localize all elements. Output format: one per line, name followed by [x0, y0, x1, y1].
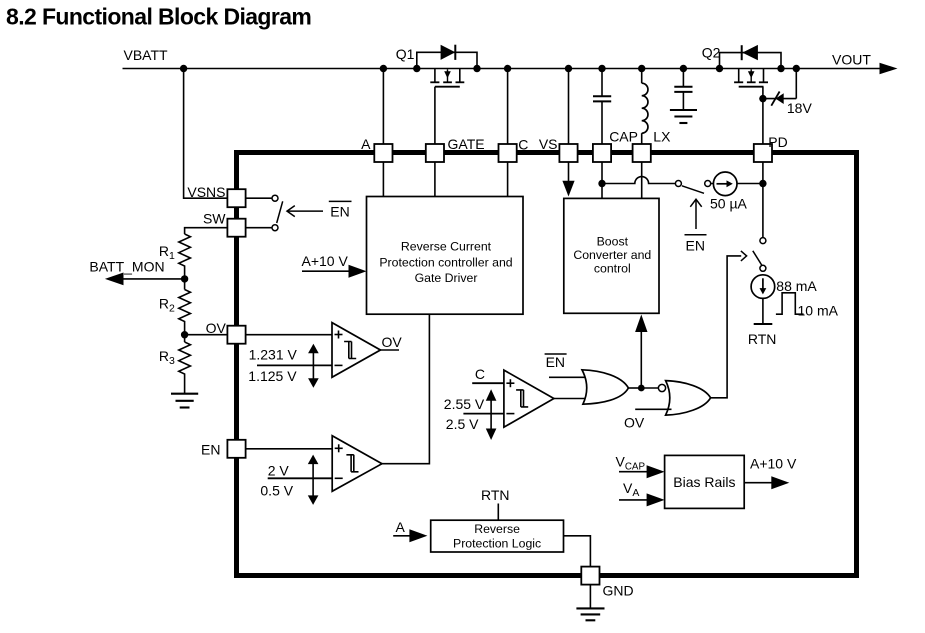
inverter bubble on NOR input — [658, 384, 665, 391]
wire zener branch — [763, 98, 796, 100]
svg-text:18V: 18V — [787, 100, 813, 116]
svg-text:VBATT: VBATT — [124, 47, 169, 63]
ground under GND pin — [576, 585, 604, 621]
wire U5 minus input threshold line — [463, 413, 504, 415]
wire R2 to R3 — [184, 335, 186, 342]
arrow VOUT output — [880, 63, 898, 75]
wire OR output — [628, 387, 641, 389]
comparator U3 OV — [332, 323, 380, 378]
wire U5 plus input — [472, 382, 504, 384]
diode Q1 body diode — [441, 45, 456, 60]
svg-text:Protection controller and: Protection controller and — [379, 256, 512, 270]
wire EN pin to U4 plus input — [246, 448, 333, 450]
arrow A+10V into U1 — [302, 270, 353, 272]
wire U3 minus input threshold line — [257, 364, 332, 366]
svg-text:C: C — [518, 137, 528, 153]
wire RTN stub to logic box — [497, 504, 499, 521]
svg-text:Gate Driver: Gate Driver — [415, 271, 478, 285]
svg-text:OV: OV — [206, 320, 227, 336]
wire VS pin drop — [568, 69, 570, 145]
svg-text:CAP: CAP — [609, 129, 638, 145]
arrow VA into U8 — [619, 499, 651, 501]
svg-text:GATE: GATE — [448, 136, 485, 152]
wire C pin to RCP box — [507, 162, 509, 197]
wire OV pin to U3 plus input — [246, 334, 332, 336]
gate U7 NOR — [666, 381, 711, 416]
svg-text:A: A — [396, 519, 406, 535]
pin SW — [203, 211, 246, 237]
wire PD pin internal drop — [762, 162, 764, 238]
svg-text:A+10 V: A+10 V — [302, 253, 349, 269]
box U9 Reverse Protection Logic — [431, 520, 564, 552]
wire U9 to GND pin — [564, 536, 591, 567]
svg-text:0.5 V: 0.5 V — [260, 483, 293, 499]
wire R1 to R2 — [184, 279, 186, 290]
wire A pin to RCP box — [382, 162, 384, 197]
svg-text:RTN: RTN — [481, 487, 510, 503]
svg-text:2.55 V: 2.55 V — [444, 396, 485, 412]
svg-text:Q2: Q2 — [702, 45, 721, 61]
box U2 Boost Converter and control — [564, 198, 659, 313]
wire PD pin drop — [762, 99, 764, 144]
pin C — [499, 137, 529, 163]
wire CAP junction into boost box — [601, 184, 603, 199]
inductor L1 on LX line — [642, 69, 648, 145]
svg-text:PD: PD — [768, 134, 787, 150]
node Q2 right junction — [777, 65, 784, 72]
wire VSNS drop from VBATT rail — [184, 69, 228, 199]
svg-text:control: control — [594, 262, 631, 276]
arrow EN to switch S1 — [287, 206, 323, 217]
svg-text:C: C — [475, 366, 485, 382]
svg-text:Converter and: Converter and — [573, 248, 651, 262]
comparator U5 current limit — [504, 370, 554, 427]
wire CAP pin to junction — [601, 162, 603, 184]
pulse waveform glyph — [776, 293, 804, 314]
node VS pin junction — [565, 65, 572, 72]
wire U3 output stub — [380, 349, 399, 351]
transistor Q2 MOSFET symbol — [734, 69, 768, 87]
svg-text:BATT_MON: BATT_MON — [89, 259, 164, 275]
arrow VCAP into U8 — [619, 471, 651, 473]
svg-text:SW: SW — [203, 211, 226, 227]
node OR output junction — [638, 385, 645, 392]
arrow EN to switch S2 — [690, 199, 701, 229]
svg-text:Bias Rails: Bias Rails — [673, 474, 735, 490]
node C pin junction — [504, 65, 511, 72]
svg-text:10 mA: 10 mA — [798, 303, 839, 319]
pin EN — [201, 440, 246, 458]
node LX branch junction — [638, 65, 645, 72]
svg-text:Reverse Current: Reverse Current — [401, 240, 492, 254]
wire U4 output to U1 — [382, 314, 429, 464]
node PD/zener junction — [759, 95, 766, 102]
hysteresis arrows U3 — [308, 344, 319, 388]
node A pin junction — [380, 65, 387, 72]
node OV junction — [181, 331, 188, 338]
node output cap junction — [680, 65, 687, 72]
wire U5 output to OR gate — [554, 398, 585, 400]
box U8 Bias Rails — [665, 455, 745, 508]
wire junction to NOR bubble — [641, 387, 658, 389]
svg-text:EN: EN — [546, 354, 565, 370]
svg-text:OV: OV — [382, 334, 403, 350]
resistor R1 — [179, 234, 191, 279]
svg-text:EN: EN — [330, 204, 349, 220]
pin VSNS — [187, 184, 245, 207]
pin A — [361, 136, 392, 162]
current source I1 50uA — [711, 172, 737, 196]
IC boundary box — [237, 153, 857, 576]
svg-text:VSNS: VSNS — [187, 184, 225, 200]
node zener top junction — [793, 65, 800, 72]
wire GATE pin to RCP box — [434, 162, 436, 197]
arrow open head at S3 — [741, 251, 747, 261]
resistor R2 — [179, 290, 191, 335]
pin CAP — [593, 129, 638, 163]
arrow A+10V out of U8 — [744, 482, 773, 484]
node Q2 left junction — [716, 65, 723, 72]
pin OV — [206, 320, 246, 344]
arrow BATT_MON output — [118, 278, 185, 280]
svg-text:A+10 V: A+10 V — [750, 456, 797, 472]
switch S1 on VSNS/SW — [246, 195, 283, 231]
wire C pin drop — [507, 69, 509, 145]
wire 50uA rail with hop over LX — [602, 177, 675, 184]
svg-text:RTN: RTN — [748, 331, 777, 347]
wire Q1 body-diode loop — [417, 52, 477, 68]
svg-text:A: A — [361, 136, 371, 152]
svg-text:OV: OV — [624, 415, 645, 431]
wire junction up into boost with arrow — [640, 320, 642, 388]
node Q1 right junction — [473, 65, 480, 72]
svg-text:1.125 V: 1.125 V — [248, 368, 297, 384]
capacitor C1 on CAP pin line — [593, 69, 611, 145]
box U1 Reverse Current Protection controller and Gate Driver — [367, 197, 524, 315]
node CAP internal junction — [598, 180, 605, 187]
wire A pin drop — [382, 69, 384, 145]
node VBATT/VSNS junction — [180, 65, 187, 72]
zener diode D3 18V — [771, 92, 783, 106]
wire VS pin into boost with arrow — [568, 162, 570, 182]
wire OV junction to OV pin — [185, 334, 228, 336]
node Q1 left junction — [413, 65, 420, 72]
svg-text:EN: EN — [201, 442, 220, 458]
gate U6 OR — [582, 370, 628, 404]
svg-text:Boost: Boost — [597, 235, 629, 249]
comparator U4 EN — [332, 436, 382, 492]
svg-text:LX: LX — [653, 129, 671, 145]
wire U4 minus input threshold line — [268, 477, 333, 479]
diode Q2 body diode — [742, 45, 758, 60]
wire OV to NOR lower input — [635, 408, 671, 410]
arrow A into U9 — [393, 535, 414, 537]
pin LX — [633, 129, 671, 163]
svg-text:88 mA: 88 mA — [776, 278, 817, 294]
wire NOR output to switch S3 control — [711, 256, 742, 398]
wire Q2 gate to PD node — [762, 87, 764, 99]
wire I2 to RTN — [762, 298, 764, 324]
svg-text:2.5 V: 2.5 V — [446, 416, 479, 432]
wire SW pin to divider — [185, 228, 228, 234]
wire Q2 body-diode loop — [720, 53, 782, 69]
pin GND — [581, 567, 633, 599]
switch S3 contact circles and blade — [753, 238, 766, 272]
svg-text:EN: EN — [686, 238, 705, 254]
ground under C2 — [670, 110, 697, 123]
svg-text:VOUT: VOUT — [832, 52, 871, 68]
node CAP branch junction — [598, 65, 605, 72]
svg-text:8.2 Functional Block Diagram: 8.2 Functional Block Diagram — [6, 4, 311, 30]
svg-text:GND: GND — [603, 583, 634, 599]
capacitor C2 output cap — [674, 69, 692, 111]
svg-text:Protection Logic: Protection Logic — [453, 537, 541, 551]
ground under R3 — [171, 394, 198, 408]
node BATT_MON junction — [181, 275, 188, 282]
switch S2 contact circles and blade — [675, 181, 710, 194]
transistor Q1 MOSFET symbol — [430, 69, 464, 87]
svg-text:2 V: 2 V — [268, 463, 290, 479]
hysteresis arrows U5 — [486, 389, 497, 440]
wire I1 to PD line — [737, 183, 763, 185]
current source I2 88mA — [751, 275, 775, 299]
resistor R3 — [179, 342, 191, 394]
wire EN bar to OR gate — [549, 376, 585, 378]
pin GATE — [426, 136, 485, 162]
hysteresis arrows U4 — [308, 455, 319, 505]
wire LX pin into boost box — [641, 162, 643, 198]
svg-text:50 µA: 50 µA — [710, 196, 748, 212]
svg-text:Reverse: Reverse — [474, 522, 520, 536]
RTN rail bar — [754, 323, 773, 325]
node PD/50uA junction — [759, 180, 766, 187]
svg-text:VS: VS — [539, 136, 558, 152]
pin PD — [754, 134, 788, 162]
wire VBATT top rail — [123, 68, 882, 70]
pin VS — [539, 136, 578, 162]
wire Q1 gate to GATE pin — [434, 87, 436, 144]
svg-text:1.231 V: 1.231 V — [249, 346, 298, 362]
svg-text:Q1: Q1 — [396, 46, 415, 62]
